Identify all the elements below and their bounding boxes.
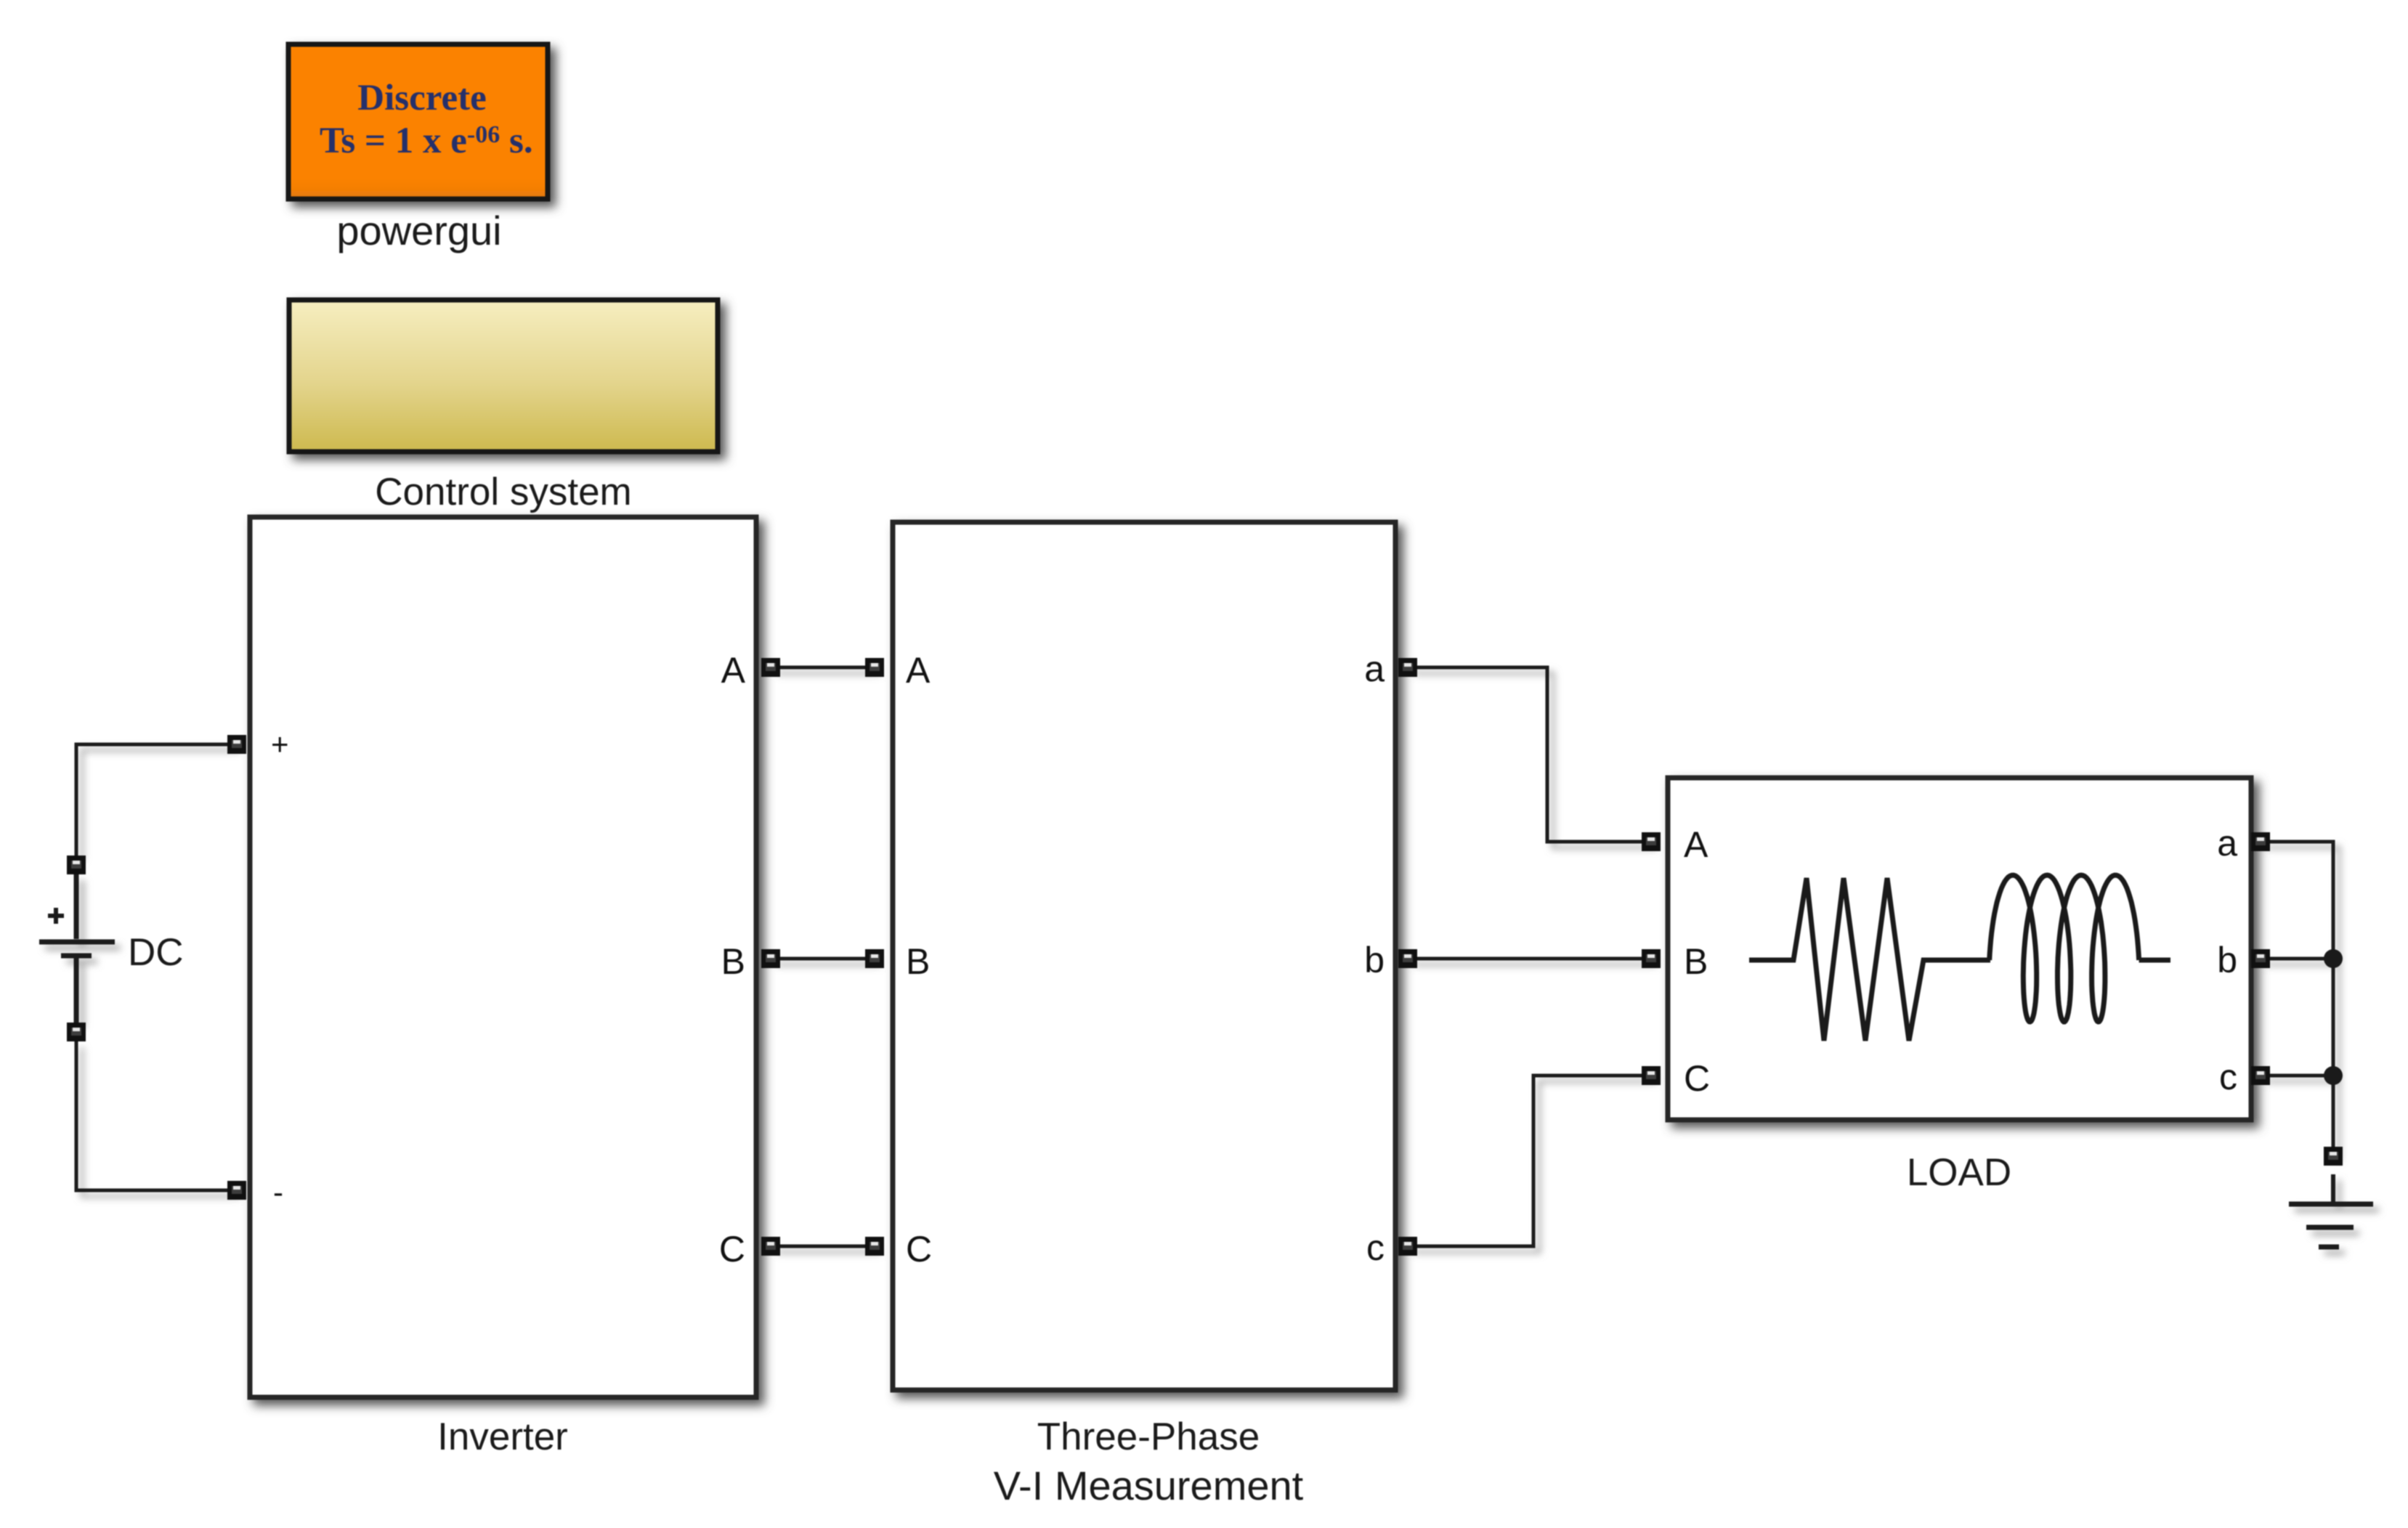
battery long plate [39,940,115,945]
ground port [2324,1147,2343,1166]
svg-text:A: A [721,650,746,691]
junction node b [2324,949,2343,968]
wire from load b to bus [2261,957,2333,961]
svg-text:b: b [2217,940,2237,980]
svg-text:Inverter: Inverter [437,1415,568,1458]
wire B [771,957,875,961]
svg-text:powergui: powergui [336,208,501,253]
V-I a port [1398,658,1417,677]
V-I measurement block body [893,522,1395,1390]
LOAD a port [2251,832,2270,851]
svg-text:Ts = 1 x e-06 s.: Ts = 1 x e-06 s. [320,121,533,161]
wire from DC - to inverter - [76,1041,235,1190]
V-I B port [865,949,884,968]
wire C [771,1245,875,1248]
svg-text:c: c [2219,1057,2237,1097]
wire A [771,666,875,670]
V-I b port [1398,949,1417,968]
svg-text:Three-Phase: Three-Phase [1037,1415,1260,1458]
wire a to LOAD A [1408,667,1651,842]
svg-text:Discrete: Discrete [357,78,486,118]
svg-text:B: B [1684,941,1708,982]
inverter C port [761,1237,780,1256]
battery short plate [61,954,92,959]
svg-text:c: c [1366,1227,1385,1268]
wire b to LOAD B [1408,957,1651,961]
svg-text:a: a [1364,649,1385,689]
svg-text:b: b [1364,940,1385,980]
battery top lead [74,874,79,939]
ground symbol [2289,1174,2373,1247]
inductor L (inside LOAD) [1990,875,2170,1022]
svg-text:B: B [906,941,930,982]
svg-text:+: + [271,727,289,761]
svg-text:B: B [721,941,745,982]
inverter block body [250,517,756,1397]
V-I C port [865,1237,884,1256]
svg-text:A: A [1684,824,1708,865]
inverter A port [761,658,780,677]
wire from load a down to ground [2261,842,2333,1156]
inverter + port [227,735,246,754]
svg-text:C: C [1684,1058,1710,1099]
svg-text:DC: DC [128,931,184,974]
battery + sign [48,908,64,924]
V-I c port [1398,1237,1417,1256]
svg-text:V-I Measurement: V-I Measurement [994,1463,1304,1508]
powergui block body [288,44,548,199]
wire c to LOAD C [1408,1076,1651,1246]
inverter - port [227,1181,246,1200]
resistor R (inside LOAD) [1749,878,1990,1041]
LOAD C port [1642,1066,1661,1085]
junction node c [2324,1066,2343,1085]
DC + port [67,856,86,874]
svg-text:C: C [906,1229,932,1269]
wire from load c to bus [2261,1074,2333,1078]
load block body [1668,778,2251,1120]
svg-text:Control system: Control system [375,471,631,513]
LOAD b port [2251,949,2270,968]
svg-text:A: A [906,650,931,691]
LOAD c port [2251,1066,2270,1085]
svg-text:-: - [273,1175,283,1209]
svg-text:LOAD: LOAD [1907,1151,2011,1194]
control system block body [289,300,718,452]
inverter B port [761,949,780,968]
svg-text:a: a [2217,823,2237,863]
LOAD B port [1642,949,1661,968]
V-I A port [865,658,884,677]
LOAD A port [1642,832,1661,851]
svg-text:C: C [719,1229,745,1269]
DC - port [67,1023,86,1041]
battery bottom lead [74,956,79,1023]
wire from DC + to inverter + [76,744,235,856]
